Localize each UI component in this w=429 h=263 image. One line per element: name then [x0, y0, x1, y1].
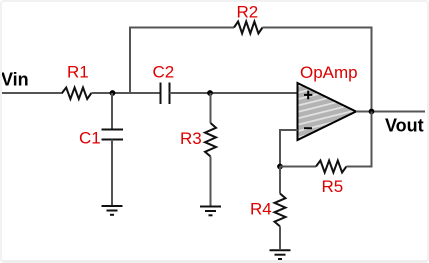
node A junction dot — [110, 90, 116, 96]
svg-text:OpAmp: OpAmp — [300, 63, 358, 82]
capacitor C1 — [102, 130, 124, 140]
node C junction dot — [277, 164, 283, 170]
capacitor C2 — [161, 83, 170, 105]
wire branch up to R2 — [129, 27, 131, 94]
ground for C1 — [102, 206, 123, 215]
wire op-amp output to Vout — [356, 111, 425, 113]
wire node C to R4 — [279, 167, 281, 194]
node output junction dot — [369, 109, 375, 115]
resistor R4 — [275, 194, 286, 227]
wire top left to R2 — [129, 27, 234, 29]
wire Vin to R1 — [2, 92, 63, 94]
wire C1 to ground — [111, 140, 113, 206]
wire R3 branch — [210, 93, 212, 123]
wire R4 to ground — [279, 226, 281, 249]
svg-text:R3: R3 — [180, 129, 202, 148]
svg-text:Vout: Vout — [385, 116, 424, 136]
wire node C to R5 — [280, 166, 316, 168]
wire R1 to C2 — [91, 92, 159, 94]
resistor R5 — [316, 161, 346, 173]
resistor R2 — [234, 22, 263, 34]
svg-text:R2: R2 — [237, 3, 259, 22]
op-amp U1 — [298, 83, 357, 140]
wire C2 to op-amp + input — [170, 92, 298, 94]
wire R2 to output node — [263, 28, 372, 112]
wire inverting input down — [280, 130, 298, 167]
svg-text:C1: C1 — [79, 129, 101, 148]
ground for R3 — [200, 207, 221, 216]
ground for R4 — [270, 250, 291, 259]
wire R5 to output node — [346, 112, 371, 167]
svg-text:Vin: Vin — [1, 69, 29, 89]
svg-text:R4: R4 — [250, 200, 272, 219]
resistor R1 — [62, 88, 91, 100]
wire C1 branch — [111, 93, 113, 130]
svg-text:R1: R1 — [67, 63, 89, 82]
node B junction dot — [207, 90, 213, 96]
svg-text:R5: R5 — [322, 177, 344, 196]
wire R3 to ground — [210, 157, 212, 206]
svg-text:C2: C2 — [153, 63, 175, 82]
resistor R3 — [205, 123, 216, 157]
